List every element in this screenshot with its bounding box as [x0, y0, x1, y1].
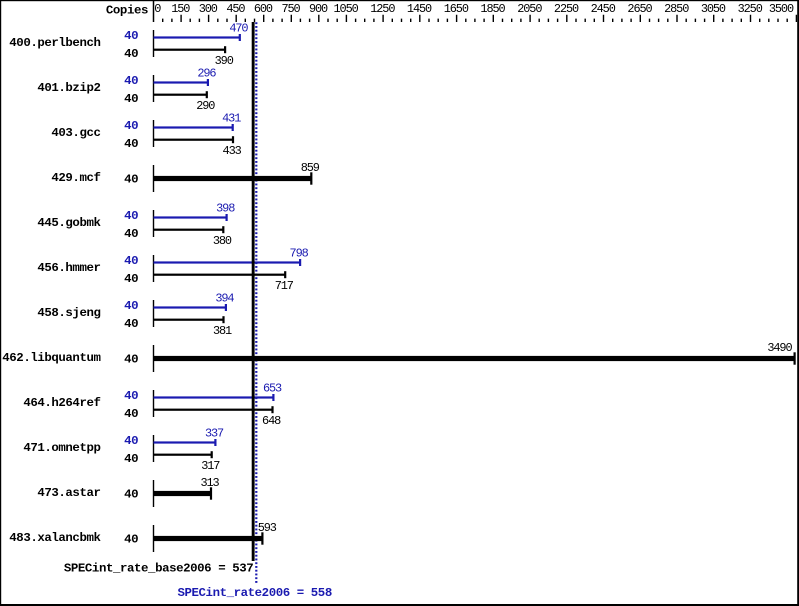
peak bar cap — [207, 79, 209, 86]
svg-text:40: 40 — [124, 209, 138, 223]
svg-text:40: 40 — [124, 353, 138, 367]
svg-text:433: 433 — [223, 144, 242, 158]
svg-text:337: 337 — [205, 427, 224, 441]
peak bar 403.gcc = 431 — [154, 126, 233, 128]
svg-text:40: 40 — [124, 254, 138, 268]
svg-text:470: 470 — [229, 22, 248, 36]
thick base bar 483.xalancbmk = 593 — [154, 536, 263, 541]
svg-text:313: 313 — [200, 476, 219, 490]
peak bar 445.gobmk = 398 — [154, 216, 227, 218]
bracket 483.xalancbmk — [153, 525, 155, 552]
svg-text:593: 593 — [258, 521, 277, 535]
peak bar cap — [239, 34, 241, 41]
peak bar cap — [214, 439, 216, 446]
svg-text:296: 296 — [197, 67, 216, 81]
svg-text:3490: 3490 — [767, 341, 792, 355]
thick base bar 462.libquantum = 3490 — [154, 356, 795, 361]
svg-text:390: 390 — [215, 54, 234, 68]
base bar cap — [206, 91, 208, 98]
peak bar 471.omnetpp = 337 — [154, 441, 216, 443]
bracket 462.libquantum — [153, 345, 155, 372]
bracket 464.h264ref — [153, 390, 155, 417]
svg-text:403.gcc: 403.gcc — [51, 126, 100, 140]
base bar 401.bzip2 = 290 — [154, 94, 207, 96]
svg-text:458.sjeng: 458.sjeng — [37, 306, 100, 320]
base bar 464.h264ref = 648 — [154, 409, 273, 411]
svg-text:SPECint_rate_base2006 = 537: SPECint_rate_base2006 = 537 — [64, 561, 253, 575]
svg-text:317: 317 — [201, 459, 220, 473]
thick base bar 473.astar = 313 — [154, 491, 212, 496]
peak bar cap — [299, 259, 301, 266]
bracket 400.perlbench — [153, 30, 155, 57]
svg-text:456.hmmer: 456.hmmer — [37, 261, 100, 275]
peak bar 456.hmmer = 798 — [154, 261, 301, 263]
svg-text:798: 798 — [290, 247, 309, 261]
svg-text:40: 40 — [124, 407, 138, 421]
bracket 471.omnetpp — [153, 435, 155, 462]
svg-text:648: 648 — [262, 414, 281, 428]
base bar cap — [222, 316, 224, 323]
svg-text:40: 40 — [124, 119, 138, 133]
peak bar 401.bzip2 = 296 — [154, 81, 208, 83]
svg-text:717: 717 — [275, 279, 294, 293]
outer border bottom — [0, 604, 799, 606]
svg-text:40: 40 — [124, 452, 138, 466]
svg-text:859: 859 — [301, 161, 320, 175]
svg-text:40: 40 — [124, 299, 138, 313]
svg-text:445.gobmk: 445.gobmk — [37, 216, 101, 230]
thick base bar 429.mcf = 859 — [154, 176, 312, 181]
svg-text:SPECint_rate2006 = 558: SPECint_rate2006 = 558 — [178, 586, 332, 600]
bracket 403.gcc — [153, 120, 155, 147]
bracket 456.hmmer — [153, 255, 155, 282]
bracket 445.gobmk — [153, 210, 155, 237]
svg-text:471.omnetpp: 471.omnetpp — [23, 441, 100, 455]
svg-text:40: 40 — [124, 488, 138, 502]
svg-text:40: 40 — [124, 317, 138, 331]
base bar 403.gcc = 433 — [154, 139, 234, 141]
base bar cap — [271, 406, 273, 413]
bar end cap — [310, 172, 312, 184]
base bar cap — [284, 271, 286, 278]
bar end cap — [794, 352, 796, 364]
base median line 537 — [252, 22, 255, 561]
peak bar cap — [225, 304, 227, 311]
base bar 456.hmmer = 717 — [154, 274, 286, 276]
peak bar 458.sjeng = 394 — [154, 306, 226, 308]
bracket 473.astar — [153, 480, 155, 507]
svg-text:400.perlbench: 400.perlbench — [9, 36, 100, 50]
svg-text:40: 40 — [124, 74, 138, 88]
svg-text:40: 40 — [124, 47, 138, 61]
peak bar cap — [226, 214, 228, 221]
base bar cap — [222, 226, 224, 233]
outer border right — [797, 0, 799, 606]
bracket 458.sjeng — [153, 300, 155, 327]
svg-text:464.h264ref: 464.h264ref — [23, 396, 100, 410]
svg-text:381: 381 — [213, 324, 232, 338]
peak bar cap — [232, 124, 234, 131]
bracket 401.bzip2 — [153, 75, 155, 102]
base bar cap — [211, 451, 213, 458]
base bar 445.gobmk = 380 — [154, 229, 224, 231]
axis ticks long — [181, 15, 796, 22]
base bar cap — [232, 136, 234, 143]
svg-text:462.libquantum: 462.libquantum — [2, 351, 100, 365]
bar end cap — [210, 487, 212, 499]
svg-text:40: 40 — [124, 434, 138, 448]
svg-text:483.xalancbmk: 483.xalancbmk — [9, 531, 101, 545]
svg-text:401.bzip2: 401.bzip2 — [37, 81, 100, 95]
svg-text:Copies: Copies — [106, 3, 148, 17]
base bar 471.omnetpp = 317 — [154, 454, 212, 456]
outer border left — [0, 0, 1, 606]
svg-text:431: 431 — [222, 112, 241, 126]
peak bar 464.h264ref = 653 — [154, 396, 274, 398]
svg-text:290: 290 — [196, 99, 215, 113]
bar end cap — [261, 532, 263, 544]
outer border top — [0, 0, 799, 1]
svg-text:40: 40 — [124, 389, 138, 403]
svg-text:40: 40 — [124, 92, 138, 106]
peak bar cap — [272, 394, 274, 401]
peak bar 400.perlbench = 470 — [154, 36, 240, 38]
axis ticks short — [163, 19, 788, 22]
base bar 458.sjeng = 381 — [154, 319, 224, 321]
svg-text:40: 40 — [124, 272, 138, 286]
base bar 400.perlbench = 390 — [154, 49, 226, 51]
svg-text:40: 40 — [124, 173, 138, 187]
svg-text:40: 40 — [124, 137, 138, 151]
base bar cap — [224, 46, 226, 53]
svg-text:429.mcf: 429.mcf — [51, 171, 100, 185]
svg-text:394: 394 — [215, 292, 234, 306]
svg-text:40: 40 — [124, 227, 138, 241]
svg-text:473.astar: 473.astar — [37, 486, 100, 500]
peak median dotted line 558 — [255, 22, 257, 583]
svg-text:398: 398 — [216, 202, 235, 216]
svg-text:40: 40 — [124, 29, 138, 43]
axis vertical line — [153, 1, 155, 22]
bracket 429.mcf — [153, 165, 155, 192]
svg-text:40: 40 — [124, 533, 138, 547]
svg-text:653: 653 — [263, 382, 282, 396]
svg-text:380: 380 — [213, 234, 232, 248]
